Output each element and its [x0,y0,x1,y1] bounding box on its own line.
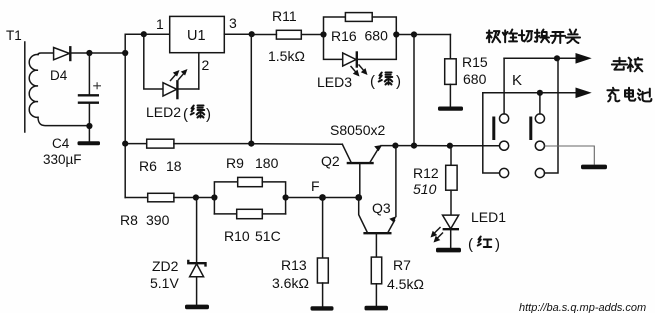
LED D3 (LED3) [343,53,356,66]
svg-text:R7: R7 [393,257,411,273]
svg-text:K: K [512,72,522,89]
svg-text:3.6kΩ: 3.6kΩ [272,275,309,291]
svg-text:330µF: 330µF [43,152,82,167]
wire pole2 middle contact to ground [545,146,595,165]
node rail / R12 [447,143,453,149]
switch K pole 2 top contact [535,114,544,123]
wire LED1 to ground [450,229,452,248]
wire pole2 top contact to row 2 node [539,93,541,114]
ground below R13 [311,306,334,310]
wire rail to R12 node [414,145,450,147]
svg-text:510: 510 [413,181,437,197]
svg-text:F: F [311,178,320,194]
wire R9 to right node [262,182,285,214]
svg-text:T1: T1 [6,28,22,43]
wire D4 cathode to node [70,52,89,54]
wire LED2 cathode to pin2 stub [177,88,198,90]
node rail / Q3 emitter drop [392,143,398,149]
svg-text:): ) [396,73,401,90]
switch K pole 2 middle contact [535,141,544,150]
wire R9 branch [214,182,237,214]
wire Q2 emitter to rail [381,145,395,147]
svg-text:U1: U1 [187,28,206,44]
svg-text:(: ( [370,73,375,90]
LED2 emission arrows [171,73,178,81]
ground below LED1 [436,248,461,253]
node pin3 junction [249,31,255,37]
resistor R8 [148,193,174,202]
resistor R12 [446,165,457,190]
ground below ZD2 [185,305,209,310]
svg-text:R12: R12 [413,165,439,181]
char qie (cut) [519,30,532,41]
arrow output row 1 [576,53,592,64]
wire LED3 cathode to right node [357,35,397,60]
wire R12 drop [450,146,452,166]
svg-text:1.5kΩ: 1.5kΩ [268,48,305,64]
wire coil bottom to C4 junction [38,117,89,125]
node C4 bottom junction [86,123,92,129]
wire F down to R13 [322,198,324,259]
char huan (exchange) [535,30,549,43]
wire LED3 bottom branch [324,35,343,60]
capacitor C4 [79,94,98,96]
wire F to Q2 base node [323,197,359,199]
svg-text:C4: C4 [52,136,70,151]
LED D1 (LED1) [443,215,459,229]
transformer T1 winding bracket [24,42,26,132]
svg-text:5.1V: 5.1V [150,275,179,291]
node ZD2 tap [193,194,199,200]
svg-text:): ) [495,236,500,253]
wire node to rail bend [89,52,125,54]
node rail top bend [122,50,128,56]
switch K pole 2 bottom contact [535,168,544,177]
wire vertical x414 down to transistor rail [413,35,415,146]
switch K pole 1 lever [492,117,495,141]
wire pole1 top contact up to output row 1 [503,58,505,114]
svg-text:4.5kΩ: 4.5kΩ [387,276,424,292]
op-amp/regulator U1 box [170,16,225,52]
wire R10 branch [214,213,236,215]
wire pole2 bottom contact right and up to row 1 [545,58,559,173]
resistor R10 [237,209,263,218]
wire rail to switch pole 1 middle [450,145,500,147]
resistor R9 [238,177,263,186]
svg-text:ZD2: ZD2 [152,258,179,274]
wire R6 row left [125,143,147,145]
label: to the battery (qu bei) [612,58,627,70]
transformer T1 coil [29,54,38,117]
LED3 emission arrows [351,67,357,74]
svg-text:R10: R10 [224,228,250,244]
svg-text:51C: 51C [255,228,281,244]
svg-text:390: 390 [146,212,170,228]
resistor R15 [445,59,457,85]
svg-text:680: 680 [463,71,487,87]
node R6 row / pin3 rail [248,141,254,147]
ground below C4 [78,141,101,145]
svg-text:http://ba.s.q.mp-adds.com: http://ba.s.q.mp-adds.com [519,302,646,313]
svg-text:R11: R11 [272,8,297,24]
zener diode ZD2 [196,198,198,264]
svg-text:1: 1 [156,16,164,32]
ground at switch [581,165,607,170]
wire vertical pin3 node down to R6 row [250,34,252,143]
wire pin1 into U1 [144,33,170,35]
transistor Q2 [348,162,373,164]
label: charging battery (chong dian chi) [607,88,619,102]
svg-text:R16: R16 [331,28,357,44]
svg-text:): ) [206,106,211,123]
wire R15 to ground [449,84,451,106]
wire R8 to ZD2 node [174,197,196,199]
char guan (close) [566,30,580,43]
wire output row 1 [504,57,576,59]
transistor Q3 [365,232,391,234]
wire R15 drop [449,35,451,59]
wire U1 pin3 to node [224,33,251,35]
node F [319,194,326,201]
switch K pole 1 middle contact [500,141,509,150]
wire right node to F [286,197,323,199]
wire rail bend up to pin1 row [125,34,144,53]
svg-text:Q3: Q3 [372,200,391,216]
svg-text:R9: R9 [226,155,244,171]
node R16 loop right [393,31,399,37]
wire U1 pin2 down [198,53,200,89]
wire R13 to ground [322,283,324,307]
svg-text:R15: R15 [462,54,488,70]
svg-text:Q2: Q2 [321,153,340,169]
wire R6 to pin3-rail node [174,143,251,145]
switch K pole 1 top contact [500,114,509,123]
resistor R6 [147,139,174,148]
wire output row 2 [483,92,577,94]
node row1 / pole2 bottom riser [554,55,560,61]
wire R10 to right node [262,213,285,215]
node rail x414 [411,143,417,149]
resistor R13 [317,258,328,283]
ground below R15 [438,107,463,111]
wire to R15 [414,34,450,36]
svg-text:LED3: LED3 [317,74,352,90]
wire to R9R10 left node [196,197,215,199]
diode D4 [54,48,70,60]
svg-text:R6: R6 [139,158,157,174]
wire Q3 base down to R7 [375,233,377,257]
ground below R7 [365,306,389,311]
char kai (open) [551,32,565,43]
node D4/C4 junction [86,50,92,56]
svg-text:(: ( [468,236,473,253]
wire LED2 left branch [144,34,163,89]
switch K pole 1 bottom contact [500,168,509,177]
svg-text:180: 180 [255,155,279,171]
node row2 / pole2 top [537,90,543,96]
resistor R16 [345,13,372,22]
wire R8 row from rail [125,197,148,199]
svg-text:LED1: LED1 [471,209,506,225]
wire coil top to D4 anode [38,53,54,55]
wire C4 bottom plate to junction [88,103,90,142]
node R9/R10 right [283,194,289,200]
wire R12 to LED1 [450,190,452,215]
svg-text:D4: D4 [50,68,68,83]
node left rail / R6 row [122,141,128,147]
svg-text:R8: R8 [120,212,138,228]
svg-text:(: ( [183,106,188,123]
arrow output row 2 [576,88,592,99]
node pin1 / LED2 junction [141,31,147,37]
resistor R7 [371,257,381,284]
char ji (extreme) [487,30,500,42]
LED1 emission arrows [433,228,440,235]
wire R16 to right node [372,17,396,35]
resistor R11 [276,30,301,39]
switch K pole 2 lever [529,117,532,141]
svg-text:LED2: LED2 [146,104,181,120]
node Q2 base / Q3 collector [355,194,362,201]
wire pole1 bottom contact left and up to row 2 [483,93,500,173]
wire R11 to R16 loop [301,34,323,36]
wire left rail vertical [124,53,126,198]
wire R6 row to Q2 collector [251,143,342,145]
LED D2 (LED2) [163,83,177,96]
wire pin3 node to R11 [252,34,277,36]
svg-text:680: 680 [365,28,389,44]
wire R7 to ground [375,284,377,306]
node R9/R10 left [211,194,217,200]
char xing (nature) [503,30,517,43]
capacitor C4 polarity plus mark [93,82,101,89]
wire down from node to C4 top plate [88,53,90,95]
svg-text:3: 3 [229,15,237,31]
node top rail drop [411,31,417,37]
svg-text:S8050x2: S8050x2 [330,122,385,138]
wire R16 top branch [324,17,346,35]
svg-text:2: 2 [202,57,210,73]
svg-text:R13: R13 [281,257,307,273]
wire rail to x414 node [395,145,414,147]
node R16 loop left [320,31,326,37]
wire right node to rail drop node [396,34,414,36]
svg-text:18: 18 [166,158,182,174]
